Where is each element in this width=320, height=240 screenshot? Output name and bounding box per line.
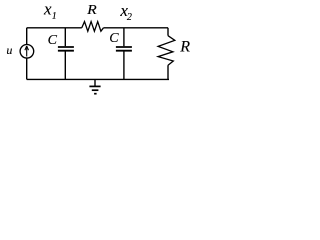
svg-text:2: 2 — [127, 12, 132, 23]
svg-text:R: R — [179, 39, 190, 56]
svg-text:C: C — [48, 33, 58, 48]
svg-text:C: C — [109, 31, 119, 46]
svg-text:u: u — [6, 43, 12, 57]
svg-text:R: R — [86, 3, 97, 18]
svg-text:x: x — [43, 0, 52, 19]
svg-text:1: 1 — [52, 11, 57, 22]
